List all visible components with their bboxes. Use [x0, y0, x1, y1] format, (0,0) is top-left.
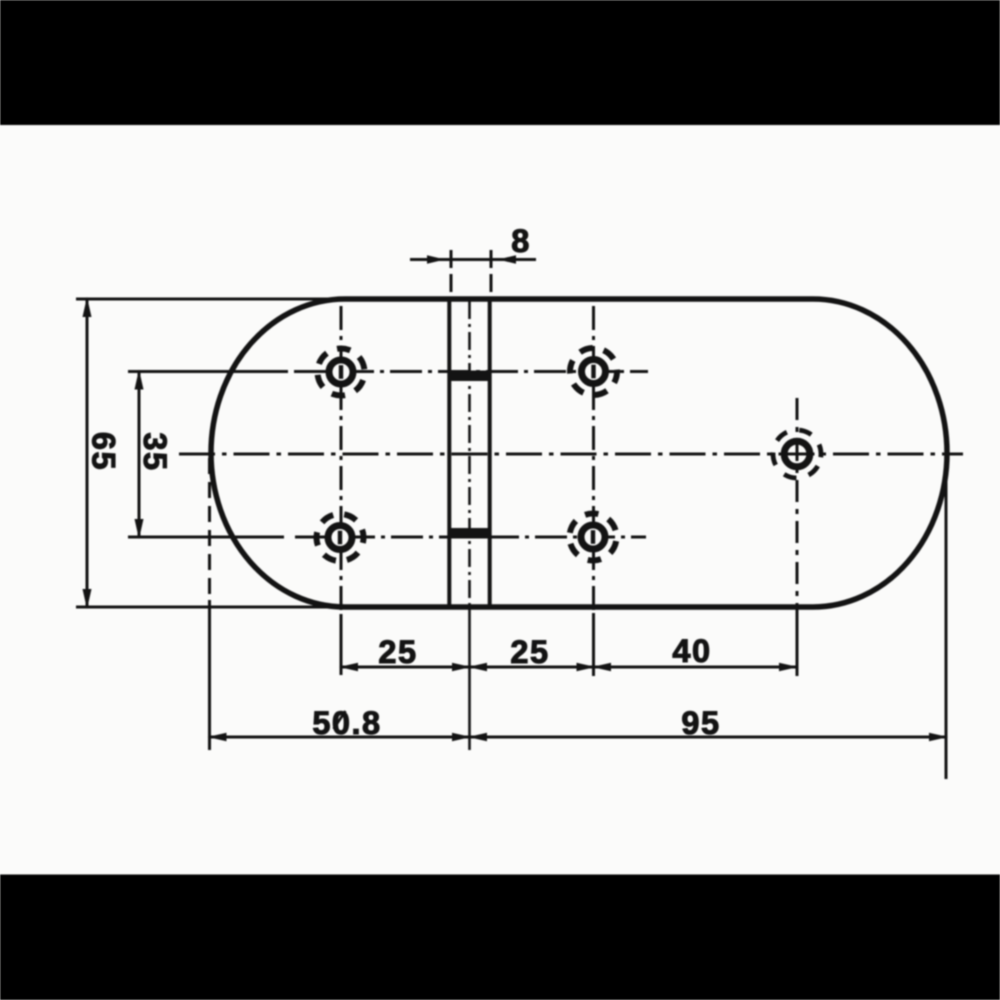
large hole column centerline [796, 398, 799, 676]
extension line left end of plate (50.8 dim) [208, 600, 211, 750]
dimension line 8 [410, 258, 536, 261]
extension line right end of plate (95 dim) [945, 458, 948, 779]
hole bottom-left countersink dashed circle [307, 504, 373, 570]
hole top-left interior centerline dash [339, 365, 343, 379]
hinge knuckle joint bar top [448, 371, 491, 382]
arrow 40 left end [592, 663, 611, 671]
scan black bar top [0, 0, 1000, 125]
arrow second 25 right end [577, 663, 596, 671]
hole bottom-right ring [581, 525, 605, 549]
scan black bar bottom [0, 875, 1000, 1000]
svg-text:65: 65 [86, 432, 122, 471]
hole top-right ring [582, 360, 606, 384]
hole top-right interior blank [585, 363, 602, 380]
arrow 95 left end [468, 733, 487, 741]
hole bottom-right countersink dashed circle [566, 510, 620, 564]
hole top-right countersink dashed circle [561, 339, 626, 404]
arrow 35 bottom [135, 519, 144, 539]
arrow 25 left end [339, 663, 358, 671]
hinge knuckle joint bar bottom [448, 528, 491, 539]
svg-text:25: 25 [378, 634, 417, 670]
arrow second 25 left end [468, 663, 487, 671]
arrow 65 top [83, 297, 92, 317]
arrow 40 right end [779, 663, 798, 671]
svg-text:40: 40 [672, 633, 711, 669]
extension line bottom left (65 dim, collinear with plate bottom) [76, 606, 380, 609]
top hole row centerline [294, 370, 648, 373]
left hole column centerline [340, 306, 343, 674]
arrow 50.8 left end [208, 733, 227, 741]
hole large right ring [784, 441, 810, 467]
arrow 50.8 right end at hinge center [452, 733, 471, 741]
hole bottom-right interior centerline dash [591, 530, 595, 544]
arrow 95 right end [929, 733, 948, 741]
arrow 35 top [135, 370, 144, 390]
right hole column extension solid tick at dim row [592, 613, 595, 676]
extension line top left (65 dim, collinear with plate top) [76, 298, 380, 301]
hole top-left interior blank [332, 363, 349, 380]
hinge knuckle line left [447, 301, 451, 605]
left hole column extension solid tick at dim row [340, 614, 343, 675]
dimension line row 25/25/40 [341, 666, 796, 669]
svg-text:95: 95 [681, 705, 720, 741]
arrow 8 left [427, 255, 445, 264]
svg-text:50.8: 50.8 [312, 705, 381, 741]
top hole row centerline solid left part (35 dim extension) [128, 370, 288, 373]
bottom hole row centerline solid left part (35 dim extension) [128, 536, 284, 539]
hole bottom-left interior blank [331, 529, 348, 546]
hole top-right interior centerline dash [591, 365, 595, 379]
arrow 25 right end at hinge center [452, 663, 471, 671]
hole top-left ring [329, 360, 353, 384]
arrow 8 right [498, 255, 516, 264]
right hole column centerline [592, 306, 595, 674]
dimension line row 50.8/95 [210, 736, 947, 739]
extension line left end of plate upper dashed part [208, 458, 211, 600]
hole bottom-right interior blank [584, 528, 601, 545]
extension tick right of hinge (8 dim) [490, 250, 493, 294]
extension tick left of hinge (8 dim) [450, 250, 453, 294]
hinge centerline extension below plate [468, 607, 471, 750]
plate outline (stadium) [211, 299, 947, 607]
horizontal centerline (main axis) [179, 453, 963, 456]
hole top-left countersink dashed circle [311, 342, 371, 402]
dimension line 35 [138, 372, 141, 538]
large hole column extension solid tick at dim row [796, 610, 799, 676]
hinge pin centerline (vertical, in strip) [468, 301, 471, 607]
hole large right countersink dashed circle [764, 421, 830, 487]
svg-text:25: 25 [510, 634, 549, 670]
dimension line 65 [86, 299, 89, 607]
svg-text:35: 35 [137, 432, 173, 471]
hinge knuckle line right [488, 301, 492, 605]
hole bottom-left interior centerline dash [338, 531, 342, 545]
hole bottom-left ring [328, 526, 352, 550]
bottom hole row centerline [295, 536, 646, 539]
svg-text:8: 8 [511, 223, 531, 259]
arrow 65 bottom [83, 589, 92, 609]
slashed zero mark in 50.8 [334, 711, 346, 729]
